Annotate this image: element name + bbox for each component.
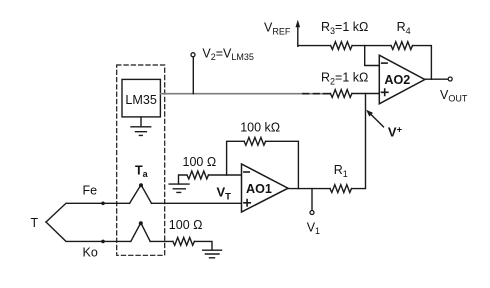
wire junction down to AO2 minus input <box>365 46 380 66</box>
VREF arrow <box>297 26 299 46</box>
dashed isothermal block box <box>117 65 165 255</box>
svg-text:100 Ω: 100 Ω <box>169 218 203 232</box>
resistor R2 <box>330 90 352 98</box>
resistor 100 ohm lower <box>173 237 195 245</box>
thermocouple junction Ta upper spike <box>130 185 152 204</box>
feedback wire up from AO1 minus node <box>227 141 245 175</box>
resistor R4 <box>391 42 413 50</box>
svg-text:VREF: VREF <box>264 21 291 37</box>
svg-text:V+: V+ <box>388 124 403 139</box>
svg-text:T: T <box>31 216 39 230</box>
wire R1 to V plus node <box>352 94 366 189</box>
svg-text:100 Ω: 100 Ω <box>183 155 217 169</box>
resistor 100 ohm upper <box>187 171 209 179</box>
AO1 plus input marker <box>244 200 250 206</box>
wire LM35 output to R2 (gray) <box>160 93 330 95</box>
svg-text:LM35: LM35 <box>125 93 157 107</box>
wire thermocouple lower lead (T to Ko wire) <box>46 222 131 241</box>
op-amp AO2 body <box>379 55 425 104</box>
junction dot on Ko wire <box>101 240 105 244</box>
wire resistor to lower ground <box>194 241 212 250</box>
op-amp AO1 body <box>242 164 289 212</box>
cold junction lower spike <box>131 223 150 242</box>
terminal V1 <box>310 211 314 215</box>
terminal VOUT <box>448 77 452 81</box>
terminal V2 <box>191 53 195 57</box>
ground below LM35 <box>131 117 151 135</box>
svg-text:Fe: Fe <box>83 183 98 197</box>
svg-text:VT: VT <box>217 185 232 203</box>
wire V1 stub <box>311 189 313 211</box>
wire R4 to output node <box>413 46 432 80</box>
wire AO2 output <box>425 78 448 80</box>
svg-text:100 kΩ: 100 kΩ <box>240 121 280 135</box>
AO2 plus input marker <box>382 89 388 95</box>
svg-text:R2=1 kΩ: R2=1 kΩ <box>321 71 368 87</box>
LM35 box <box>122 79 160 117</box>
AO2 minus input marker <box>382 62 387 64</box>
svg-text:VOUT: VOUT <box>440 88 468 104</box>
svg-text:V1: V1 <box>307 220 320 236</box>
wire VT to AO1 plus input <box>152 202 242 204</box>
wire VREF corner to R3 <box>298 45 331 47</box>
junction dot at Ta spike peak <box>139 183 143 187</box>
svg-text:V2=VLM35: V2=VLM35 <box>202 46 254 62</box>
wire 100 ohm to AO1 minus input <box>208 174 241 176</box>
svg-text:R3=1 kΩ: R3=1 kΩ <box>321 20 368 36</box>
svg-text:R1: R1 <box>334 163 348 179</box>
resistor 100 kohm <box>244 137 266 145</box>
wire AO1 output <box>288 188 330 190</box>
svg-text:AO1: AO1 <box>246 182 272 196</box>
svg-text:R4: R4 <box>397 20 411 36</box>
svg-text:Ko: Ko <box>83 246 98 260</box>
wire spike to lower 100 ohm resistor <box>150 240 173 242</box>
svg-text:AO2: AO2 <box>384 73 410 87</box>
feedback wire down to AO1 output <box>266 141 299 188</box>
ground lower right <box>203 250 222 258</box>
wire resistor step to upper ground <box>179 175 188 184</box>
ground upper (at 100 ohm) <box>169 184 189 192</box>
wire up to V2 terminal <box>192 57 194 94</box>
resistor R3 <box>331 42 353 50</box>
resistor R1 <box>330 185 352 193</box>
AO1 minus input marker <box>244 171 249 173</box>
svg-text:Ta: Ta <box>135 164 149 180</box>
V plus arrow <box>370 113 384 127</box>
wire thermocouple upper lead (T to Fe wire) <box>46 203 130 222</box>
dark dashes on LM35 wire <box>303 93 330 95</box>
wire R3 to R4 <box>352 45 391 47</box>
junction dot at lower spike peak <box>139 221 143 225</box>
wire R2 to AO2 plus input <box>352 93 379 95</box>
junction dot on Fe wire <box>101 202 105 206</box>
